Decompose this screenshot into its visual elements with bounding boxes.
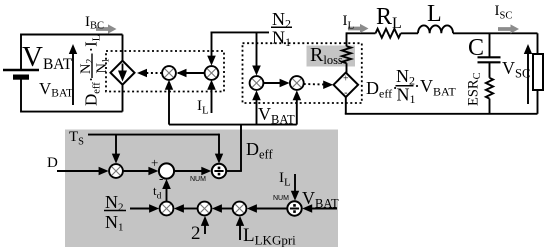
svg-text:NUM: NUM: [273, 195, 289, 202]
svg-text:+: +: [151, 155, 158, 170]
svg-text:2: 2: [191, 223, 201, 244]
svg-text:NUM: NUM: [190, 176, 206, 183]
svg-text:-: -: [159, 171, 163, 186]
svg-text:C: C: [468, 35, 484, 61]
svg-text:+: +: [343, 74, 349, 85]
svg-text:L: L: [427, 1, 442, 27]
svg-text:D: D: [47, 155, 58, 171]
